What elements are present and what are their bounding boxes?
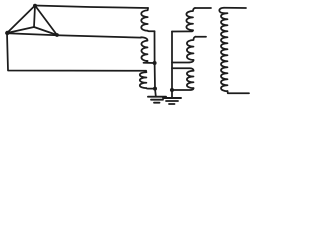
junction dot bus1/L2 (153, 61, 157, 65)
antenna triangle side A-B (7, 6, 35, 34)
wire: L7 bottom open lead (228, 91, 250, 93)
antenna inner lead P-C (34, 27, 57, 35)
wire: open stub from coil L5 top (196, 36, 207, 38)
wire: open stub from coil L4 top (195, 7, 211, 9)
antenna triangle side A-C (35, 6, 57, 36)
wire: L6 bottom to bus2 (172, 88, 194, 90)
wire: L5 bottom to bus2 (172, 60, 194, 63)
coil L5 (group2 middle, 3 turns) (187, 37, 196, 60)
node dot at corner C (55, 33, 59, 37)
coil L1 (group1 upper, 3 turns) (141, 8, 148, 31)
node dot at apex A (33, 4, 37, 8)
antenna inner lead P-B (7, 27, 34, 33)
ground G2 bar 3 (169, 103, 175, 105)
wire: bus1 vertical (155, 31, 156, 96)
wire: open lead from coil L7 top (224, 7, 246, 9)
junction dot bus1/L3 (153, 87, 157, 91)
coil L3 (group1 lower, 3 turns) (140, 71, 147, 88)
wire: L4 bottom to bus2 (172, 30, 193, 31)
ground G2 bar 2 (166, 100, 178, 102)
ground G2 bar 1 (163, 97, 181, 99)
wire: left down-lead and bottom lead to coil L3 (7, 33, 146, 71)
wire: middle lead from corner B through C to coil L2 (7, 33, 141, 37)
wire: L2 bottom to bus1 (144, 61, 155, 63)
ground G1 bar 1 (148, 96, 166, 98)
antenna inner lead A-P (34, 6, 35, 28)
node dot at corner B (5, 31, 9, 35)
wire: L1 bottom to bus1 (148, 30, 155, 33)
coil L2 (group1 middle, 3 turns) (141, 37, 148, 61)
coil L7 (right, 13 turns) (219, 8, 227, 91)
junction dot bus2/L6 (170, 88, 174, 92)
ground G1 bar 3 (154, 102, 160, 104)
ground G1 bar 2 (151, 99, 163, 101)
coil L4 (group2 upper, 3 turns) (186, 8, 195, 30)
wire: tap from bus2 to coil L6 top (172, 68, 194, 70)
wire: L3 bottom to bus1 (146, 87, 155, 90)
coil L6 (group2 lower, 3 turns) (187, 71, 194, 88)
wire: top lead from apex to coil L1 (35, 6, 148, 9)
wire: bus2 vertical (171, 32, 173, 98)
